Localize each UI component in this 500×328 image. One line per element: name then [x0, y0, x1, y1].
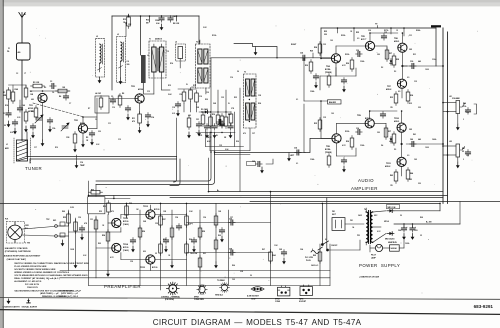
svg-text:C9: C9 [111, 96, 113, 98]
svg-text:R12: R12 [123, 19, 126, 21]
transistor TR5 [365, 41, 374, 50]
fuse block SK/T [332, 218, 345, 231]
svg-text:D3: D3 [394, 71, 396, 73]
svg-text:BC177: BC177 [361, 39, 366, 41]
svg-text:(P/STANDS) CARTRIDGE: (P/STANDS) CARTRIDGE [5, 250, 32, 253]
svg-text:BF164: BF164 [80, 122, 85, 125]
rectifier MR1 [387, 209, 394, 213]
wire vertical into can A [140, 16, 142, 55]
svg-text:TO REAR: TO REAR [217, 279, 225, 282]
IF transformer T1 (can A) [149, 38, 166, 79]
capacitor C52A on bus [159, 16, 164, 23]
diodes bias right ch [390, 137, 393, 144]
svg-text:AD162: AD162 [385, 165, 390, 168]
svg-text:READING (A.T.) 100-2: READING (A.T.) 100-2 [58, 295, 79, 298]
svg-text:T2 IF: T2 IF [196, 42, 200, 44]
wire mid run 3 [170, 197, 443, 199]
svg-text:C30: C30 [410, 61, 413, 63]
svg-text:FS1: FS1 [332, 211, 335, 213]
svg-text:50: 50 [4, 125, 6, 127]
svg-text:C40: C40 [410, 138, 413, 141]
svg-text:0.5: 0.5 [407, 77, 409, 79]
svg-text:SOCKETS VIEWED FROM WIRING SID: SOCKETS VIEWED FROM WIRING SIDE [14, 269, 56, 271]
resistor row above TR1 [30, 81, 70, 100]
svg-text:100: 100 [330, 40, 333, 42]
svg-text:LS2: LS2 [449, 141, 452, 143]
svg-text:MR2 OA210: MR2 OA210 [385, 238, 394, 241]
svg-text:VOL: VOL [463, 106, 466, 108]
svg-text:L4 OSC: L4 OSC [95, 92, 102, 95]
svg-text:1500 KC/S: 1500 KC/S [27, 287, 38, 289]
svg-text:680: 680 [31, 99, 34, 101]
svg-text:390: 390 [377, 54, 380, 56]
svg-text:C61: C61 [415, 230, 418, 232]
svg-text:VOLTS TAKEN — μF: VOLTS TAKEN — μF [59, 290, 79, 293]
svg-text:FS1: FS1 [350, 220, 353, 222]
svg-text:ON/OFF: ON/OFF [331, 245, 337, 247]
svg-text:D2: D2 [381, 67, 383, 69]
svg-text:TUNER: TUNER [25, 166, 42, 171]
svg-text:PU1: PU1 [5, 219, 8, 221]
preamp sprinkled parts [63, 204, 235, 277]
svg-text:B+: B+ [217, 190, 219, 192]
svg-text:AD162: AD162 [386, 88, 391, 91]
svg-text:R3 2.2K: R3 2.2K [33, 82, 40, 84]
svg-text:470: 470 [243, 132, 246, 135]
svg-text:683-9291: 683-9291 [474, 304, 494, 309]
svg-text:C25: C25 [219, 145, 222, 147]
svg-text:REAL CURRENT (AT SIGNAL) 10: REAL CURRENT (AT SIGNAL) 100 mA (A.C.) [14, 277, 60, 280]
cartridge PU1 [8, 222, 22, 243]
svg-text:CONN VIEW: CONN VIEW [194, 299, 204, 301]
svg-text:POWER SUPPLY: POWER SUPPLY [359, 263, 400, 268]
svg-text:R54: R54 [102, 234, 105, 237]
svg-text:R.F. 600 KC/S: R.F. 600 KC/S [25, 284, 40, 286]
rectifier MR2 [387, 232, 394, 236]
svg-text:R29: R29 [310, 51, 313, 53]
svg-text:+: + [407, 227, 408, 229]
svg-text:VOL/MAX: VOL/MAX [452, 97, 461, 100]
svg-text:B+ 36V: B+ 36V [426, 222, 433, 224]
svg-text:0.5: 0.5 [407, 155, 409, 157]
svg-text:+: + [428, 239, 429, 241]
svg-text:R23: R23 [234, 97, 237, 99]
svg-text:C63: C63 [232, 279, 235, 281]
svg-text:C52: C52 [173, 16, 176, 18]
svg-text:VA1034: VA1034 [391, 247, 397, 250]
svg-text:R41: R41 [413, 133, 416, 136]
svg-text:D4: D4 [381, 144, 383, 147]
svg-text:R32: R32 [409, 103, 412, 105]
AGC wires to tuner [27, 132, 177, 163]
left channel input wire [215, 138, 332, 152]
svg-text:T3: T3 [244, 72, 246, 74]
svg-text:R10: R10 [55, 147, 58, 149]
svg-text:1000: 1000 [425, 69, 429, 71]
svg-text:C43: C43 [414, 158, 417, 161]
svg-text:C31: C31 [409, 35, 412, 37]
footer rule upper [0, 298, 500, 300]
emitter resistors left ch [394, 92, 398, 106]
svg-text:C26: C26 [356, 50, 359, 52]
svg-text:CONN: CONN [275, 301, 281, 303]
headphone socket [278, 286, 290, 296]
svg-text:C34: C34 [294, 147, 297, 150]
svg-text:460: 460 [18, 51, 21, 54]
ferrite rod aerial L1 [14, 138, 31, 163]
svg-text:R18: R18 [193, 85, 196, 87]
svg-text:0.1: 0.1 [296, 163, 298, 165]
svg-text:C51: C51 [90, 219, 93, 221]
scan top grey band [0, 0, 500, 6]
svg-text:470: 470 [132, 120, 135, 123]
svg-text:C14: C14 [151, 116, 154, 119]
svg-text:R11: R11 [132, 118, 135, 120]
svg-text:390: 390 [377, 132, 380, 134]
svg-text:Z1: Z1 [8, 48, 10, 50]
svg-text:R6: R6 [44, 87, 46, 89]
wire branch to L3 [125, 23, 127, 37]
svg-text:C36: C36 [356, 128, 359, 130]
svg-text:R67: R67 [262, 249, 265, 251]
output cap right ch [410, 141, 417, 146]
wire mid run 2 [89, 194, 448, 196]
svg-text:R26: R26 [236, 141, 239, 143]
footer rule lower (page edge) [0, 310, 500, 315]
coupling network TR2 to TR3 [88, 92, 135, 129]
svg-text:PL1 2-PIN: PL1 2-PIN [305, 257, 314, 259]
svg-text:C20: C20 [206, 92, 209, 94]
svg-text:R35: R35 [314, 123, 317, 125]
svg-text:C24: C24 [300, 52, 303, 55]
svg-text:460KC/S: 460KC/S [155, 38, 163, 41]
chassis earth legend symbol [7, 299, 11, 305]
svg-text:C59: C59 [130, 261, 133, 263]
antenna filter box Z1 [17, 43, 31, 60]
svg-text:R46: R46 [463, 102, 466, 105]
svg-text:R9: R9 [86, 137, 88, 139]
preamp horizontals [60, 205, 330, 286]
wire bus left drop [111, 16, 113, 90]
svg-text:(TR40B): (TR40B) [325, 151, 332, 154]
svg-text:R1: R1 [3, 92, 5, 94]
svg-text:C11: C11 [108, 123, 111, 125]
svg-text:ALIGNMENT: I.F. 455 KC/S: ALIGNMENT: I.F. 455 KC/S [14, 280, 42, 283]
svg-text:C13: C13 [147, 91, 150, 93]
svg-text:L2: L2 [96, 36, 98, 38]
svg-text:C50: C50 [78, 217, 81, 219]
svg-text:640: 640 [418, 138, 421, 141]
volume pot lower [443, 144, 471, 168]
svg-text:C42: C42 [466, 154, 469, 157]
transistor TR12 [112, 218, 121, 227]
svg-text:25: 25 [462, 151, 464, 153]
svg-text:YELLOW: YELLOW [190, 253, 198, 255]
svg-text:C10: C10 [112, 107, 115, 109]
wire B+ right drop [439, 203, 441, 210]
amp right boundary verticals [443, 28, 448, 203]
svg-text:T4: T4 [364, 208, 366, 211]
svg-text:56: 56 [237, 71, 239, 73]
transistor TR15 [146, 255, 155, 264]
svg-text:(P42 VIEW): (P42 VIEW) [165, 298, 174, 301]
preamp bottom risers to supply [271, 192, 331, 286]
transistor TR7 [397, 79, 406, 88]
svg-text:AF185: AF185 [28, 107, 33, 110]
svg-text:R51: R51 [103, 206, 106, 208]
smoothing caps [394, 211, 460, 240]
svg-text:R8 2.2K: R8 2.2K [173, 23, 180, 25]
svg-text:R42: R42 [409, 178, 412, 181]
svg-text:C21: C21 [196, 119, 199, 121]
svg-text:CONTROL + TERMINAL: CONTROL + TERMINAL [161, 295, 180, 298]
svg-text:R66: R66 [232, 265, 235, 267]
svg-text:R65: R65 [313, 255, 316, 257]
svg-text:0.01: 0.01 [10, 132, 13, 134]
svg-text:C17: C17 [34, 147, 37, 149]
bus drop left [320, 28, 322, 58]
svg-text:0.5: 0.5 [357, 38, 359, 40]
wire supply drop [321, 203, 323, 243]
transistor TR11 [397, 157, 406, 166]
fuse mark on bus [431, 25, 441, 27]
svg-text:R43: R43 [390, 174, 393, 177]
resistor R8 label on bus [176, 16, 178, 21]
dropper resistor cluster [281, 250, 286, 257]
svg-text:R53: R53 [99, 211, 102, 213]
svg-text:PLUG VIEWED FROM PIN SIDE: PLUG VIEWED FROM PIN SIDE [14, 266, 47, 268]
svg-text:C3: C3 [50, 81, 52, 83]
svg-text:50: 50 [400, 215, 402, 217]
IF amp resistor cluster [175, 87, 198, 116]
svg-text:R30: R30 [305, 65, 308, 67]
transistor TR8 [332, 134, 341, 143]
svg-text:C16: C16 [80, 162, 83, 164]
svg-text:330: 330 [98, 131, 101, 133]
svg-text:PLUG: PLUG [306, 260, 311, 262]
svg-text:50: 50 [250, 275, 252, 277]
svg-text:R19: R19 [212, 114, 215, 116]
svg-text:0.5: 0.5 [398, 91, 400, 93]
svg-text:(T-A02): (T-A02) [123, 249, 129, 252]
svg-text:C27: C27 [252, 133, 255, 135]
svg-text:3: 3 [463, 119, 464, 121]
svg-text:T1: T1 [149, 39, 151, 41]
svg-text:R57: R57 [163, 219, 166, 221]
svg-text:R47: R47 [462, 147, 465, 150]
preamp verticals [69, 181, 229, 290]
svg-text:AD161: AD161 [394, 120, 399, 123]
svg-text:AUDIO: AUDIO [358, 178, 374, 183]
tape socket [300, 285, 312, 296]
svg-text:(VALUE 16A7 BA7): (VALUE 16A7 BA7) [7, 258, 27, 261]
svg-text:BC109: BC109 [152, 267, 157, 269]
svg-text:640: 640 [418, 60, 421, 63]
svg-text:VIEW A-A: VIEW A-A [215, 294, 223, 297]
wire bus right corner drop [198, 16, 200, 44]
svg-text:A/BASS RESPONSE ADJUSTMENT: A/BASS RESPONSE ADJUSTMENT [4, 254, 41, 257]
svg-text:AF186: AF186 [138, 88, 143, 91]
svg-text:C54: C54 [175, 216, 178, 219]
variable capacitor C6 [61, 123, 69, 131]
transistor TR14 [112, 243, 121, 252]
svg-text:R20: R20 [205, 99, 208, 101]
svg-text:C28: C28 [258, 95, 261, 97]
svg-text:MAGNETIC STACKED: MAGNETIC STACKED [5, 247, 28, 250]
svg-text:C58: C58 [229, 249, 232, 251]
svg-text:R27: R27 [389, 53, 392, 55]
svg-text:1W: 1W [390, 107, 393, 109]
svg-text:0.1: 0.1 [296, 99, 298, 101]
svg-text:MR1 LT44: MR1 LT44 [388, 206, 396, 209]
svg-text:TP/F: TP/F [46, 219, 50, 221]
svg-text:R14: R14 [170, 62, 173, 65]
extra detector parts [187, 111, 233, 138]
svg-text:R8: R8 [122, 93, 124, 95]
transistor TR4 [331, 54, 340, 63]
svg-text:C23: C23 [323, 44, 326, 46]
svg-text:C18: C18 [172, 107, 175, 109]
svg-text:25: 25 [420, 235, 422, 237]
svg-text:R13: R13 [146, 20, 149, 22]
svg-text:C56: C56 [203, 217, 206, 219]
input network verticals [304, 58, 328, 153]
svg-text:(TR40B): (TR40B) [325, 71, 332, 74]
wire TR2 collector up [82, 117, 84, 124]
wire long b+ run [209, 191, 444, 193]
IF transformer T3 (can C) [244, 72, 257, 129]
svg-text:C53: C53 [155, 223, 158, 225]
antenna A1 [19, 13, 25, 44]
transistor TR1 [38, 93, 47, 102]
svg-text:SWITCH VIEWED ON CONNECTIONS.: SWITCH VIEWED ON CONNECTIONS. WAFER EACH… [14, 262, 89, 265]
right ch wiring [321, 101, 443, 176]
svg-text:SOCKET: SOCKET [299, 301, 307, 303]
wire vertical x240 to b+ [239, 158, 241, 192]
svg-text:SPKR: SPKR [275, 299, 280, 301]
svg-text:R49: R49 [62, 210, 65, 213]
svg-text:BAL/MIX: BAL/MIX [329, 101, 337, 104]
svg-text:S2: S2 [325, 239, 327, 241]
junction dots layer [21, 15, 448, 204]
transistor TR6 [398, 43, 407, 52]
BAL/MIX boxed label [328, 100, 342, 104]
input terminal cluster [53, 220, 65, 246]
transistor TR3 [135, 94, 144, 103]
emitter resistor below TR3 [132, 103, 154, 133]
svg-text:C2: C2 [16, 73, 18, 75]
svg-text:240V A.C.: 240V A.C. [311, 264, 319, 267]
IF transformer T2 (can B) [196, 42, 211, 89]
svg-text:AMPLIFIER: AMPLIFIER [351, 186, 378, 191]
wire main earth rail [0, 202, 440, 204]
svg-text:L6: L6 [175, 42, 177, 44]
svg-text:470: 470 [111, 210, 114, 213]
amp supply bus [321, 27, 436, 29]
svg-text:D1 OA90: D1 OA90 [201, 108, 208, 111]
svg-text:R22: R22 [324, 31, 327, 33]
svg-text:WIRING VIEWED LOOKING NUMBER O: WIRING VIEWED LOOKING NUMBER OF CONTROLS [14, 272, 69, 274]
detector/AGC dense cluster [196, 111, 235, 139]
decoupling cap C52 [168, 16, 173, 23]
thermistor R70 [390, 245, 400, 251]
variable capacitor C5 [35, 115, 43, 123]
switch wafer S1b [197, 284, 208, 295]
svg-text:R33: R33 [390, 97, 393, 99]
bus right corner drop [435, 28, 437, 66]
din socket (eye) [251, 287, 264, 292]
svg-text:680: 680 [188, 115, 191, 117]
diodes bias left ch [390, 59, 393, 66]
svg-text:C4: C4 [127, 60, 129, 63]
svg-text:R5: R5 [31, 111, 33, 113]
scan left grey band [0, 0, 3, 328]
tuning gang dashed link [33, 103, 84, 117]
svg-text:L3: L3 [117, 34, 119, 36]
svg-text:0.02: 0.02 [83, 255, 86, 257]
svg-text:220: 220 [418, 107, 421, 109]
emitter resistors right ch [394, 170, 398, 184]
bus ticks with labels [338, 28, 405, 41]
svg-text:R59: R59 [202, 231, 205, 233]
preamp input sub-box [88, 197, 105, 214]
long verticals IF strip [177, 58, 240, 158]
feedback wire left ch [320, 68, 336, 91]
svg-text:R36: R36 [346, 141, 349, 143]
footer small text right-aligned [58, 290, 79, 298]
svg-text:C16: C16 [230, 77, 233, 79]
svg-text:C15: C15 [166, 51, 169, 53]
svg-text:BC109: BC109 [154, 209, 159, 211]
svg-text:R63: R63 [98, 243, 101, 245]
svg-text:(AND TAKE) — μF: (AND TAKE) — μF [40, 292, 59, 295]
node tick [149, 16, 151, 22]
svg-text:BC/DA: BC/DA [325, 148, 331, 151]
svg-text:R34: R34 [410, 94, 413, 97]
svg-text:R60: R60 [189, 239, 192, 241]
svg-text:+: + [415, 227, 416, 229]
switch wafer S1a [166, 282, 180, 296]
svg-text:R55: R55 [129, 203, 132, 205]
switch wafer S1c [219, 282, 229, 292]
svg-text:D5: D5 [394, 149, 396, 151]
wire antenna box to coil [21, 60, 23, 140]
RF coil can L2 [96, 36, 105, 83]
svg-text:300: 300 [127, 64, 130, 66]
cartridge dashed outline [7, 222, 25, 244]
wire pair from volume down-left [96, 152, 215, 186]
small coil box L6 [175, 42, 186, 62]
svg-text:CIRCUIT DIAGRAM — MODELS T5-47: CIRCUIT DIAGRAM — MODELS T5-47 AND T5-47… [153, 318, 362, 327]
svg-text:C19: C19 [199, 96, 202, 98]
svg-text:C8: C8 [95, 119, 97, 121]
supply bus wire top [112, 15, 199, 17]
svg-text:(T-A02): (T-A02) [123, 223, 129, 226]
svg-text:2N3: 2N3 [409, 129, 412, 131]
bias resistors right ch [384, 126, 388, 140]
svg-text:C7: C7 [69, 103, 71, 105]
svg-text:R15: R15 [168, 85, 171, 87]
svg-text:R26: R26 [346, 63, 349, 65]
svg-text:0.01: 0.01 [199, 135, 202, 137]
transistor TR2 [78, 124, 87, 133]
svg-text:C29: C29 [368, 30, 371, 32]
wire long run 4 [250, 201, 500, 203]
RF coil can L3 [117, 34, 130, 84]
mains switch S2 [321, 241, 328, 251]
svg-text:R31: R31 [413, 54, 416, 56]
interstage wires to can C [206, 128, 251, 155]
